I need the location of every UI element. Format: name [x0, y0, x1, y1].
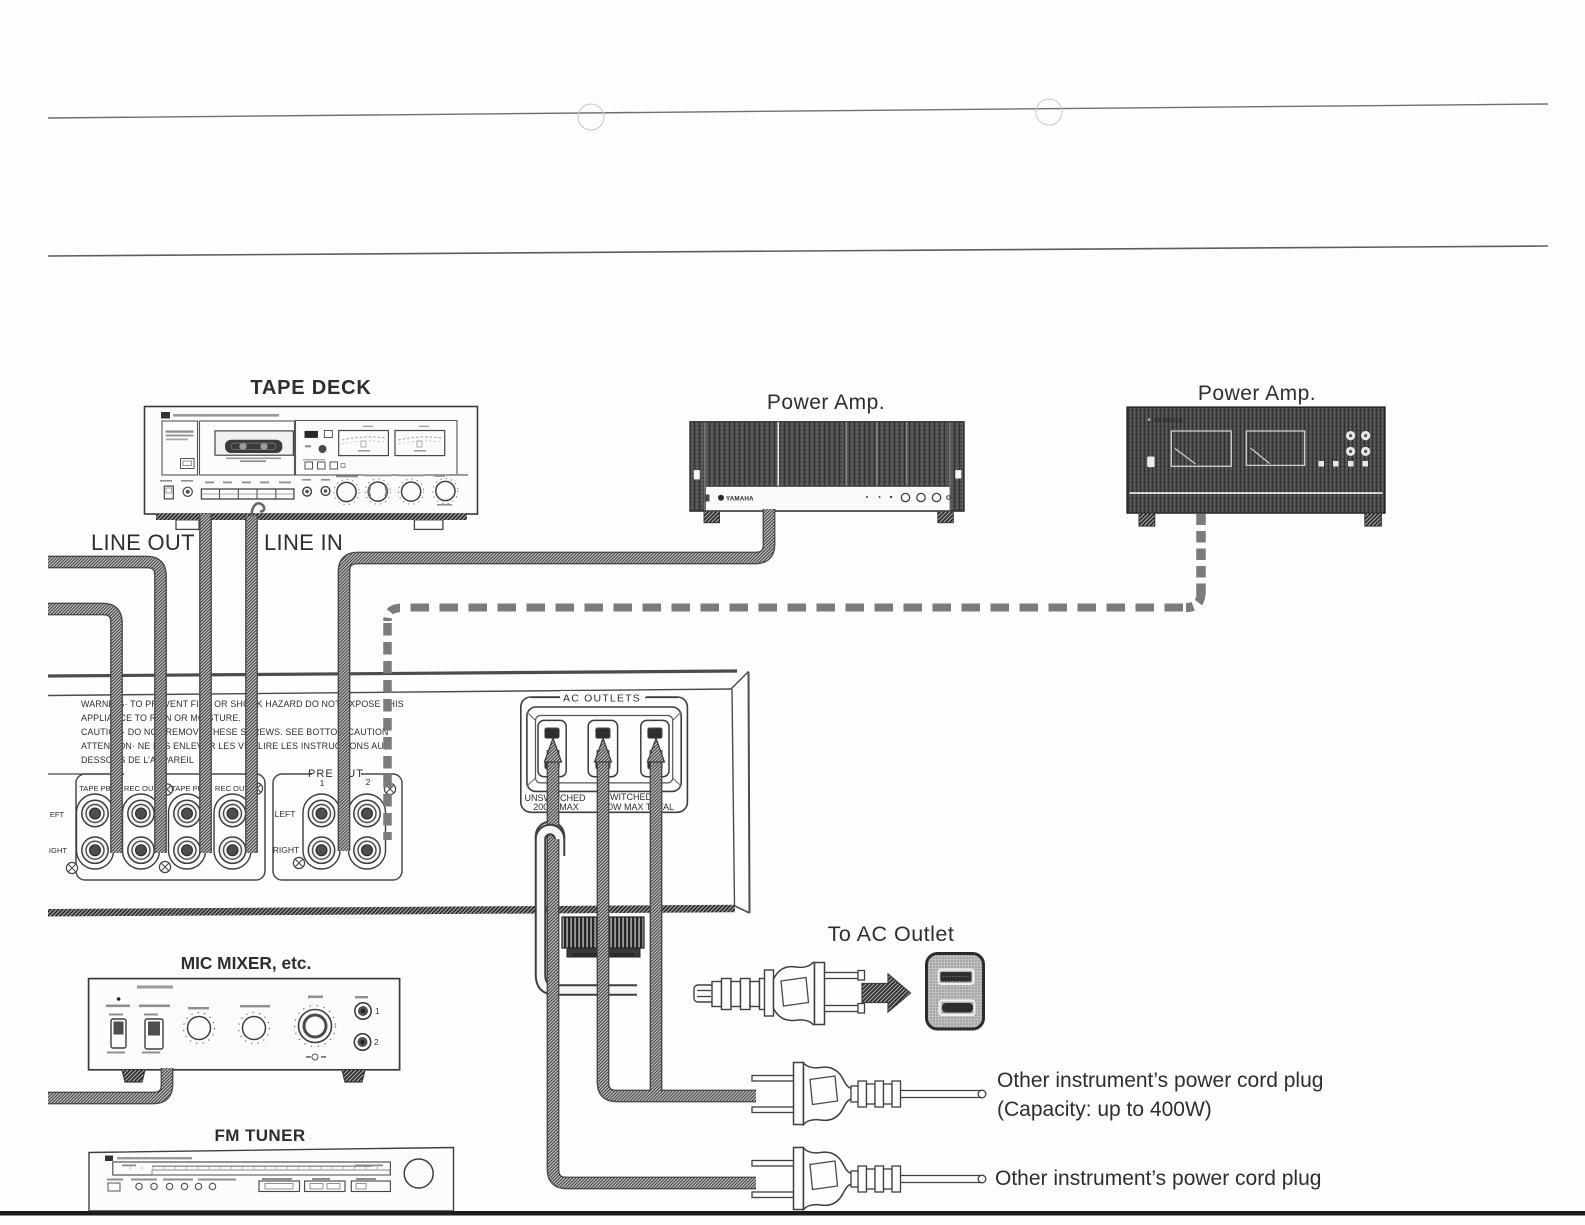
svg-text:RIGHT: RIGHT [273, 845, 299, 855]
svg-text:REC OUT: REC OUT [124, 784, 159, 793]
svg-text:YAMAHA: YAMAHA [726, 495, 754, 502]
svg-text:2: 2 [374, 1038, 379, 1047]
svg-text:YAMAHA: YAMAHA [1153, 418, 1183, 425]
svg-text:SWITCHED: SWITCHED [604, 792, 652, 802]
svg-text:TAPE PB: TAPE PB [79, 784, 111, 793]
svg-text:2: 2 [366, 777, 371, 787]
svg-text:PRE OUT: PRE OUT [308, 768, 364, 780]
svg-text:MIC MIXER, etc.: MIC MIXER, etc. [181, 953, 312, 973]
svg-text:WARNING· TO PREVENT FIRE OR SH: WARNING· TO PREVENT FIRE OR SHOCK HAZARD… [81, 699, 404, 709]
svg-text:LINE IN: LINE IN [264, 530, 343, 555]
svg-text:(Capacity: up to 400W): (Capacity: up to 400W) [997, 1098, 1212, 1121]
svg-text:TAPE PB: TAPE PB [171, 784, 203, 793]
svg-text:TAPE DECK: TAPE DECK [250, 377, 371, 399]
svg-text:To AC Outlet: To AC Outlet [828, 922, 955, 946]
svg-text:Power Amp.: Power Amp. [1198, 382, 1316, 405]
svg-text:LINE OUT: LINE OUT [91, 530, 195, 555]
svg-text:LEFT: LEFT [275, 809, 296, 819]
svg-text:AC OUTLETS: AC OUTLETS [563, 693, 641, 705]
svg-text:IGHT: IGHT [49, 846, 68, 855]
svg-text:1: 1 [375, 1007, 380, 1016]
svg-text:DESSOUS DE L’APPAREIL: DESSOUS DE L’APPAREIL [81, 755, 194, 765]
svg-text:REC OUT: REC OUT [215, 784, 250, 793]
svg-text:FM TUNER: FM TUNER [214, 1126, 305, 1145]
svg-text:Power Amp.: Power Amp. [767, 391, 885, 414]
svg-text:Other instrument’s power cord: Other instrument’s power cord plug [997, 1069, 1323, 1092]
svg-text:EFT: EFT [50, 810, 65, 819]
svg-text:1: 1 [320, 778, 325, 788]
svg-text:Other instrument’s power cord: Other instrument’s power cord plug [995, 1167, 1321, 1190]
